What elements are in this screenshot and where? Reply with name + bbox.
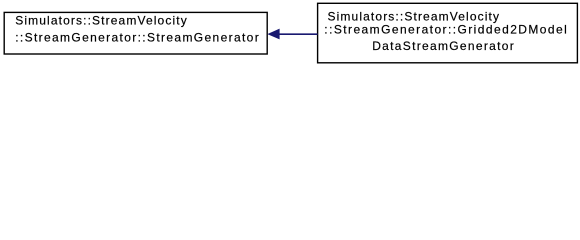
svg-text:Simulators::StreamVelocity: Simulators::StreamVelocity [328,10,500,24]
edge shaft (wire) from right node to left node [279,33,318,35]
svg-text:Simulators::StreamVelocity: Simulators::StreamVelocity [15,14,187,28]
node box: Simulators::StreamVelocity::StreamGenerator::StreamGenerator (left) [4,12,267,54]
svg-text:::StreamGenerator::Gridded2DMo: ::StreamGenerator::Gridded2DModel [324,23,567,37]
arrowhead pointing at left node [269,29,280,38]
svg-text:DataStreamGenerator: DataStreamGenerator [372,39,514,53]
node box: Simulators::StreamVelocity::StreamGenerator::Gridded2DModelDataStreamGenerator (right) [318,3,578,63]
svg-text:::StreamGenerator::StreamGener: ::StreamGenerator::StreamGenerator [15,31,258,45]
